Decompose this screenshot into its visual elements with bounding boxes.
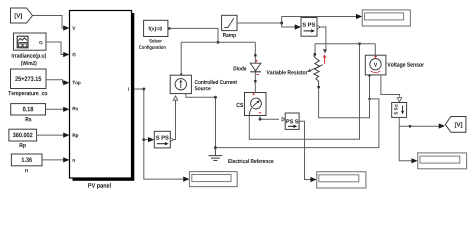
- wire PS-S to Display2 (current display): [299, 121, 317, 182]
- converter PS-S vertical (voltage measurement): [392, 103, 407, 118]
- signal source Irradiance(p.u): [12, 33, 46, 66]
- from tag [V] (top left): [11, 8, 33, 23]
- wire solver configuration to node rail: [171, 28, 220, 43]
- subsystem PV panel: [70, 11, 135, 189]
- variable resistor R1: [267, 54, 327, 88]
- ground electrical reference: [208, 146, 273, 163]
- wire n to PV panel port n: [42, 157, 70, 162]
- constant 1.36 (n): [11, 154, 42, 172]
- junction on I wire to S-PS: [142, 137, 154, 142]
- wire from [V] tag to PV panel port V: [33, 16, 70, 31]
- diode D1: [234, 42, 261, 92]
- wire ramp to S PS converter and Display3: [237, 14, 362, 30]
- display Display1 (PV current, bottom left): [190, 172, 238, 187]
- source Ramp: [222, 15, 237, 38]
- node rail top-right (electrical node B): [314, 44, 376, 56]
- voltage sensor VS: [365, 55, 424, 75]
- wire current sensor PS output to PS-S converter: [259, 115, 286, 121]
- wire Rs to PV panel port Rs: [46, 107, 70, 112]
- display Display4 (bottom right): [418, 153, 467, 169]
- wire Rp to PV panel port Rp: [37, 133, 70, 138]
- wire PS-S to goto tag [V] and Display4: [399, 117, 445, 163]
- constant 360.002 (Rp): [9, 129, 37, 148]
- wire rail to controlled current source top: [180, 42, 182, 75]
- controlled current source U1: [170, 75, 237, 93]
- converter S PS (top, ramp to physical signal): [301, 18, 317, 37]
- wire Temperature_co to PV panel port Top: [46, 80, 70, 86]
- display Display3 (top right): [362, 10, 410, 26]
- converter S-PS (lower): [154, 131, 170, 148]
- solver configuration f(x)=0: [139, 20, 171, 50]
- wire voltage sensor PS output to PS-S converter (rotated): [381, 75, 402, 102]
- wire current sensor negative to node B rail: [249, 43, 360, 140]
- display Display2 (bottom middle): [317, 172, 366, 188]
- wire S-PS to controlled current source control port: [170, 96, 177, 142]
- constant 25+273.15 (Temperature_co): [8, 69, 47, 96]
- wire S PS to variable resistor control port: [317, 25, 327, 53]
- converter PS-S (current measurement): [285, 113, 299, 129]
- wire Irradiance G to PV panel port G: [46, 42, 70, 57]
- goto tag [V] (right): [445, 117, 466, 133]
- current sensor CS: [237, 93, 267, 116]
- node rail top-left (electrical node): [181, 41, 255, 43]
- wire variable resistor bottom to voltage sensor negative: [319, 74, 371, 118]
- wire PV panel output I (to S-PS converter and Display): [134, 88, 189, 182]
- wire ground rail to voltage sensor negative: [215, 98, 379, 148]
- wire controlled current source bottom to ground node: [186, 94, 217, 148]
- constant 0.18 (Rs): [11, 104, 46, 122]
